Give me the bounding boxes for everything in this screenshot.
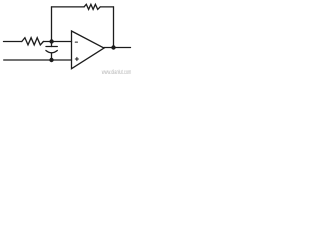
- node C junction dot (cap/bottom rail): [49, 58, 53, 62]
- wire input stub (left to R1): [4, 41, 22, 43]
- wire bottom rail (to non-inverting input): [4, 59, 72, 61]
- wire output stub: [104, 47, 131, 49]
- wire top rail right segment: [100, 6, 113, 8]
- capacitor C1 curved bottom plate: [46, 51, 57, 53]
- capacitor C1 top plate: [46, 46, 57, 48]
- wire top rail left segment: [52, 6, 85, 8]
- node A junction dot (input/feedback/cap): [49, 39, 53, 43]
- wire feedback left vertical (node A up to top rail): [51, 7, 53, 42]
- op-amp U1 triangle: [72, 31, 105, 69]
- node B junction dot (output/feedback): [111, 45, 115, 49]
- capacitor C1 lead from node A: [51, 42, 53, 47]
- op-amp minus input label: [75, 41, 77, 43]
- svg-text:www.dianlut.com: www.dianlut.com: [101, 69, 131, 76]
- op-amp plus input label: [75, 57, 78, 60]
- resistor R1 (input series resistor): [22, 38, 44, 45]
- capacitor C1 lead to ground rail: [51, 53, 53, 60]
- resistor R2 (feedback resistor): [84, 4, 100, 9]
- wire feedback right vertical (down to output node): [113, 7, 115, 48]
- wire R1 to inverting input: [43, 41, 71, 43]
